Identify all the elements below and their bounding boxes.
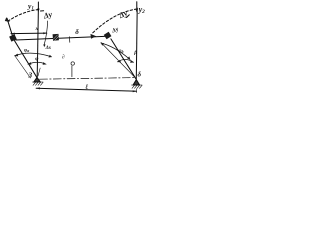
delta label above bar [75, 28, 79, 36]
svg-text:Δs: Δs [45, 45, 51, 51]
svg-text:Δy: Δy [111, 26, 120, 34]
right support center tick [135, 89, 137, 93]
left small angle label [35, 56, 39, 62]
small ring marker [71, 62, 74, 65]
x label [35, 26, 39, 32]
svg-text:β: β [133, 50, 137, 56]
left aux ray [15, 56, 31, 78]
left angle arc large [15, 53, 52, 57]
left angle arc small [28, 62, 46, 64]
svg-text:φa: φa [24, 47, 29, 53]
level dash left [41, 10, 44, 12]
left rod original (vertical) [37, 9, 38, 78]
x dimension line [11, 32, 47, 35]
right angle arc small [118, 60, 134, 63]
y2 arrow [136, 2, 138, 9]
right angle label phi-b [118, 48, 123, 54]
right rod final (tilted) [111, 39, 136, 79]
svg-text:y2: y2 [138, 5, 146, 15]
level dash right [127, 15, 130, 18]
l label [84, 83, 88, 91]
left support label J [27, 70, 32, 79]
left dashed arc (path of rod top) [8, 10, 39, 22]
right angle arc large [101, 43, 130, 60]
right dashed arc (path of rod top) [93, 9, 137, 33]
left support pin [34, 77, 41, 82]
right small angle label beta [133, 50, 137, 56]
vertical tick below ring [71, 66, 73, 77]
svg-text:φb: φb [118, 48, 123, 54]
left angle label phi-a [24, 47, 29, 53]
right support pin [133, 80, 140, 85]
right support hatching [131, 85, 142, 88]
l dimension line [36, 88, 136, 91]
dash-dot baseline [40, 78, 135, 80]
y1 label [27, 1, 34, 11]
aux line at left support [38, 68, 40, 76]
arc end arrowhead [91, 34, 97, 39]
left rod final (tilted) [7, 18, 37, 77]
svg-text:φ: φ [35, 56, 39, 62]
delta-y label left [42, 10, 54, 21]
small glyph d [62, 54, 65, 60]
svg-text:∂: ∂ [62, 54, 65, 60]
delta-y label right upper [117, 8, 130, 20]
middle slider block [53, 34, 59, 41]
svg-text:Δy: Δy [117, 8, 130, 20]
arrowhead at left rod top [5, 17, 10, 22]
svg-text:ℓ: ℓ [84, 83, 88, 91]
right rod original (vertical) [135, 8, 138, 79]
tick on bar [68, 37, 70, 43]
svg-text:y1: y1 [27, 1, 34, 11]
bar (horizontal rod, displaced) [16, 36, 105, 40]
y2 label [138, 5, 146, 15]
right slider block [104, 32, 112, 40]
delta-y label right lower [111, 26, 120, 34]
svg-text:x: x [35, 26, 39, 32]
small delta-s label [45, 45, 51, 51]
leader line from delta-y label [44, 21, 48, 46]
svg-text:δ: δ [75, 28, 79, 36]
right support label delta [138, 71, 142, 79]
left slider block [9, 34, 17, 41]
svg-text:З: З [27, 70, 32, 79]
left support hatching [32, 82, 43, 85]
svg-text:Δy: Δy [42, 10, 54, 21]
right aux ray [101, 43, 136, 79]
svg-text:δ: δ [138, 71, 142, 79]
y1 arrow head [37, 9, 40, 13]
